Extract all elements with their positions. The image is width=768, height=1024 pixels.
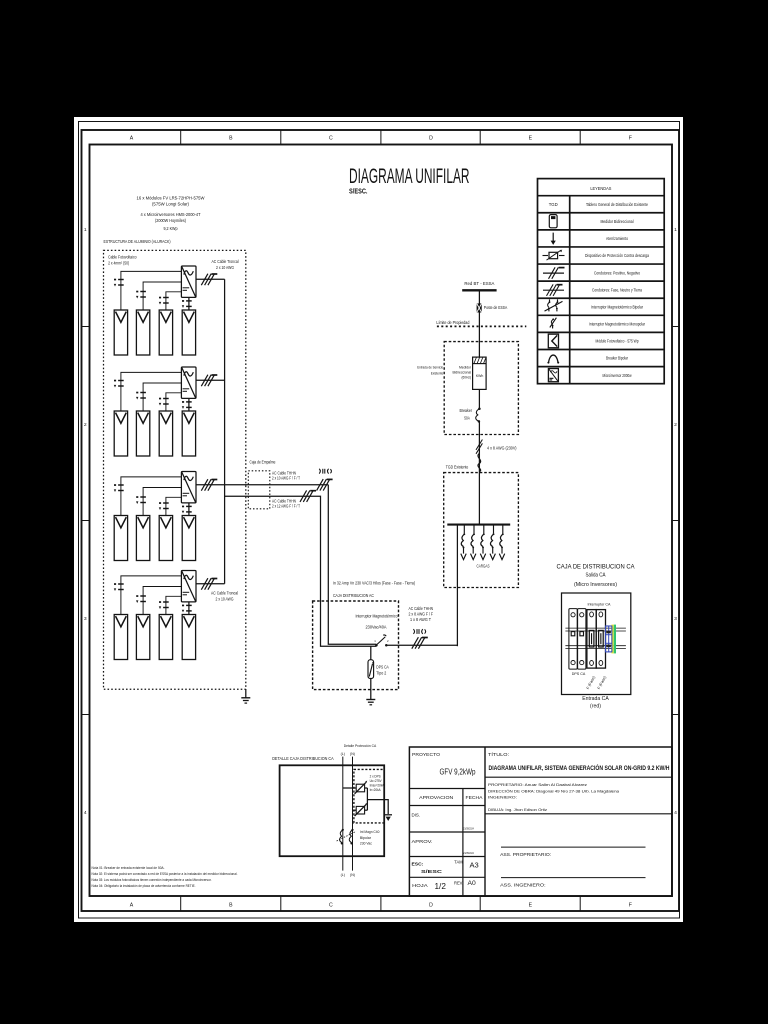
- svg-text:Bidireccional: Bidireccional: [453, 370, 472, 374]
- DC wire G1 panel 2 to inverter: [143, 282, 181, 310]
- label TGD Existente: [446, 465, 469, 470]
- svg-text:AC Cable Troncal: AC Cable Troncal: [211, 591, 238, 596]
- aluminium structure dashed enclosure: [104, 250, 246, 689]
- microinverter U2: [181, 367, 196, 398]
- distribution box dashed enclosure: [313, 601, 399, 690]
- MC4 connector pair G3-2: [136, 496, 146, 504]
- structure earthing wire: [245, 689, 247, 698]
- DC wire G4 panel 1 to inverter: [121, 576, 181, 615]
- svg-text:A3: A3: [470, 861, 479, 870]
- solar PV module G3-P1: [114, 516, 127, 561]
- title block frame: [409, 747, 672, 896]
- svg-text:Poste de ESSA: Poste de ESSA: [484, 305, 508, 310]
- solar PV module G1-P1: [114, 310, 127, 355]
- label ESTRUCTURA DE ALUMINIO (ALURACK): [104, 239, 171, 244]
- svg-text:21/05/2024: 21/05/2024: [463, 851, 474, 855]
- AC breaker module 1: [587, 610, 596, 669]
- bipolar breaker detail L: [340, 829, 344, 845]
- solar PV module G2-P3: [159, 411, 172, 456]
- svg-text:A0: A0: [468, 880, 476, 887]
- svg-text:Uc=275V: Uc=275V: [370, 779, 383, 783]
- label DPS CA Tipo 2: [376, 665, 389, 676]
- svg-text:D: D: [429, 903, 433, 909]
- label Red BT - ESSA: [464, 281, 494, 286]
- svg-text:TAM.: TAM.: [454, 859, 463, 864]
- svg-text:Cable Fotovoltaico: Cable Fotovoltaico: [108, 255, 137, 260]
- DC wire G4 panel 2 to inverter: [143, 587, 181, 615]
- drawing title text: [489, 763, 670, 772]
- microinverter U1: [181, 266, 196, 297]
- legend text row 2: [601, 219, 634, 224]
- label Interruptor CA: [588, 601, 611, 606]
- svg-text:4 x Microinversores HMS-2000-4: 4 x Microinversores HMS-2000-4T: [141, 212, 201, 217]
- svg-text:DIBUJA: Ing. Jhon Edison Orti: DIBUJA: Ing. Jhon Edison Ortiz: [488, 807, 547, 812]
- signature line proprietario: [501, 846, 646, 848]
- svg-text:ASS. INGENIERO:: ASS. INGENIERO:: [500, 882, 545, 887]
- AC trunk wire from U2 to bus: [196, 379, 225, 381]
- svg-text:Salida CA: Salida CA: [586, 573, 606, 579]
- svg-text:1 x 8 AWG T: 1 x 8 AWG T: [410, 617, 431, 622]
- svg-text:4: 4: [674, 810, 677, 816]
- conductor count marks on U4 output: [201, 578, 217, 590]
- svg-text:S/ESC: S/ESC: [421, 869, 443, 875]
- svg-text:INGENIERO:: INGENIERO:: [488, 794, 517, 799]
- svg-text:DIAGRAMA UNIFILAR, SISTEMA GEN: DIAGRAMA UNIFILAR, SISTEMA GENERACIÓN SO…: [489, 763, 670, 772]
- wire L phase detail: [342, 757, 344, 871]
- legend icon breaker bipolar: [547, 355, 559, 364]
- label AC Cable THHN output: [409, 606, 434, 634]
- svg-text:(N): (N): [350, 752, 355, 756]
- svg-text:Bipolar: Bipolar: [360, 836, 372, 840]
- svg-text:ESTRUCTURA DE ALUMINIO (ALURAC: ESTRUCTURA DE ALUMINIO (ALURACK): [104, 239, 171, 244]
- svg-text:2 x 10 AWG: 2 x 10 AWG: [216, 596, 234, 601]
- legend text row 8: [589, 322, 645, 327]
- svg-text:Nota 03: Los módulos fotovolta: Nota 03: Los módulos fotovoltaicos tiene…: [92, 878, 212, 882]
- svg-text:In 32 Amp Vn 230 VAC/3 Hilos: In 32 Amp Vn 230 VAC/3 Hilos (Fase - Fas…: [333, 581, 416, 586]
- DPS module 2: [578, 609, 586, 670]
- svg-text:DIS.: DIS.: [412, 813, 421, 818]
- MC4 connector pair G4-4: [182, 605, 192, 613]
- svg-text:F: F: [629, 903, 632, 909]
- legend icon monopolar thermal-magnetic switch: [550, 318, 557, 329]
- PV interconnection wire from TGD bus: [456, 525, 458, 647]
- conductor marks on lower circuit: [300, 490, 316, 502]
- label TITULO: [488, 751, 509, 758]
- svg-text:Medidor: Medidor: [459, 365, 472, 369]
- svg-text:Int Magn C40: Int Magn C40: [360, 830, 380, 834]
- label 4 x 8 AWG (230V): [487, 446, 517, 451]
- svg-text:A: A: [130, 903, 134, 909]
- DC wire G2 panel 2 to inverter: [143, 383, 181, 411]
- conductor marks service feeder: [476, 440, 482, 454]
- label AC Cable Troncal (group 1): [212, 259, 239, 270]
- bipolar breaker detail N: [349, 829, 353, 845]
- label AC Cable Troncal (group 4): [211, 591, 238, 602]
- wire group3 down to distribution box (upper circuit): [328, 485, 376, 645]
- svg-text:B: B: [229, 136, 233, 142]
- label 2 x DPS specs: [370, 775, 385, 792]
- label AC cable THHN 10AWG: [272, 470, 300, 480]
- utility bus bar Red BT: [462, 289, 496, 291]
- legend icon ground arrow: [551, 233, 556, 245]
- svg-text:230Vac/40A: 230Vac/40A: [366, 625, 387, 630]
- svg-text:TGD Existente: TGD Existente: [446, 465, 469, 470]
- svg-text:Nota 01: Breaker de entrada ex: Nota 01: Breaker de entrada existente lo…: [92, 866, 165, 870]
- svg-text:CARGAS: CARGAS: [477, 563, 490, 568]
- detail title CAJA DE DISTRIBUCION CA: [557, 563, 635, 588]
- legend table LEYENDAS frame: [538, 179, 665, 384]
- DPS ground symbol: [366, 700, 375, 705]
- label Detalle Proteccion CA: [344, 743, 377, 748]
- svg-text:(red): (red): [590, 704, 601, 710]
- legend text row 5: [594, 270, 640, 275]
- svg-text:(L): (L): [341, 873, 345, 877]
- AC trunk wire from U1 to bus: [196, 278, 225, 280]
- svg-text:4 x 8 AWG (230V): 4 x 8 AWG (230V): [487, 446, 517, 451]
- detail box outline: [280, 765, 385, 856]
- conductor marks on upper circuit corner: [317, 479, 333, 491]
- svg-text:3: 3: [674, 616, 677, 622]
- label APROVACION FECHA: [419, 795, 483, 800]
- svg-text:9,2 KWp: 9,2 KWp: [164, 226, 178, 231]
- DC wire G1 panel 1 to inverter: [121, 271, 181, 310]
- conductor count marks on U1 output: [201, 274, 217, 286]
- pole Poste de ESSA: [477, 303, 482, 312]
- svg-text:Dispositivo de Protección Cont: Dispositivo de Protección Contra descarg…: [585, 253, 649, 258]
- label AC cable THHN 12AWG: [272, 498, 300, 508]
- svg-text:2 x 10 AWG: 2 x 10 AWG: [216, 265, 234, 270]
- wire breaker to TGD bus: [478, 421, 480, 524]
- label Entrada de Servicio Existente: [417, 366, 443, 376]
- DIN rail upper: [565, 628, 626, 631]
- svg-text:Nota 02: El sistema podrá ser: Nota 02: El sistema podrá ser conectado …: [92, 872, 238, 876]
- DC wire G1 panel 3 to inverter: [166, 292, 182, 310]
- legend icon microinverter: [548, 369, 558, 382]
- svg-text:2 x 12 AWG F / F / T: 2 x 12 AWG F / F / T: [272, 504, 300, 509]
- label Int Magn C40: [360, 830, 380, 845]
- svg-text:Entrada CA: Entrada CA: [582, 696, 609, 702]
- DPS detail dashed box: [354, 769, 384, 823]
- svg-text:2 x DPS: 2 x DPS: [370, 775, 382, 779]
- svg-text:Breaker Bipolar: Breaker Bipolar: [606, 356, 628, 361]
- svg-text:Microinversor 2000w: Microinversor 2000w: [603, 373, 633, 378]
- solar PV module G4-P3: [159, 615, 172, 660]
- label Medidor Bidireccional: [453, 365, 472, 379]
- DC wire G1 panel 4 to inverter: [188, 297, 190, 310]
- MC4 connector pair G2-4: [182, 401, 192, 409]
- solar PV module G2-P2: [136, 411, 149, 456]
- solar PV module G4-P2: [136, 615, 149, 660]
- caja de empalme dashed box: [248, 471, 269, 509]
- svg-text:2: 2: [84, 422, 87, 428]
- grid reference ticks: [82, 130, 680, 911]
- microinverter U4: [181, 571, 196, 602]
- microinverter U3: [181, 472, 196, 503]
- label CAJA DISTRIBUCION AC: [333, 593, 375, 598]
- solar PV module G3-P4: [182, 516, 195, 561]
- svg-text:TÍTULO:: TÍTULO:: [488, 751, 509, 758]
- outer thin border: [79, 122, 680, 919]
- svg-text:B: B: [229, 903, 233, 909]
- solar PV module G2-P4: [182, 411, 195, 456]
- legend icon DPS: [543, 249, 565, 260]
- svg-text:1: 1: [674, 227, 677, 233]
- svg-text:C: C: [329, 136, 333, 142]
- MC4 connector pair G2-3: [159, 398, 169, 406]
- svg-text:C: C: [329, 903, 333, 909]
- svg-text:E: E: [529, 903, 533, 909]
- label Caja de Empalme: [250, 459, 276, 464]
- svg-text:21/05/2024: 21/05/2024: [463, 826, 474, 830]
- svg-text:Interruptor Magnetotérmico: Interruptor Magnetotérmico: [356, 614, 399, 619]
- bidirectional meter KWh: [473, 357, 487, 389]
- svg-text:DPS CA: DPS CA: [376, 665, 389, 670]
- svg-text:Condutores: Fase, Neutro y Tie: Condutores: Fase, Neutro y Tierra: [592, 287, 642, 292]
- svg-text:Nota 04: Obligatorio la instal: Nota 04: Obligatorio la instalación de p…: [92, 884, 196, 888]
- varistor DPS 2: [353, 803, 368, 816]
- label Limite de Propiedad: [436, 320, 469, 325]
- svg-text:(2000W Hoymiles): (2000W Hoymiles): [155, 218, 186, 223]
- legend icon conductors 3: [543, 284, 564, 296]
- svg-text:16 x Módulos FV LR5-72HPH-575W: 16 x Módulos FV LR5-72HPH-575W: [137, 195, 206, 200]
- grid reference letters and numbers: [84, 136, 677, 909]
- label Interruptor Magnetotermico: [356, 614, 399, 619]
- svg-text:Entrada de Servicio: Entrada de Servicio: [417, 366, 443, 370]
- DPS output tie wire: [367, 788, 388, 814]
- MC4 connector pair G4-1: [114, 583, 124, 591]
- wire N phase detail: [352, 757, 354, 871]
- DC wire G4 panel 4 to inverter: [188, 602, 190, 615]
- structure ground symbol: [241, 698, 250, 703]
- MC4 connector pair G3-3: [159, 502, 169, 510]
- DC wire G3 panel 3 to inverter: [166, 497, 182, 515]
- svg-text:APROV.: APROV.: [412, 839, 433, 844]
- svg-text:TGD: TGD: [549, 202, 559, 207]
- svg-text:CAJA DE DISTRIBUCION CA: CAJA DE DISTRIBUCION CA: [557, 563, 635, 570]
- legend icon meter: [549, 215, 557, 228]
- DC wire G2 panel 1 to inverter: [121, 372, 181, 411]
- svg-text:Medidor Bidireccional: Medidor Bidireccional: [601, 219, 634, 224]
- svg-text:A: A: [130, 136, 134, 142]
- svg-text:Breaker: Breaker: [460, 408, 473, 413]
- svg-text:LEYENDAS: LEYENDAS: [590, 186, 611, 192]
- svg-text:2 x 10 AWG F / F / T: 2 x 10 AWG F / F / T: [272, 476, 300, 481]
- svg-text:Caja de Empalme: Caja de Empalme: [250, 459, 276, 464]
- svg-text:E: E: [529, 136, 533, 142]
- terminal labels L N top: [341, 752, 355, 756]
- MC4 connector pair G4-2: [136, 595, 146, 603]
- label In 32 Amp Vn 230VAC: [333, 581, 416, 586]
- solar PV module G3-P3: [159, 516, 172, 561]
- row DIS: [412, 813, 474, 831]
- inner drawing border: [90, 145, 673, 897]
- rotated label F fase 1: [586, 675, 597, 690]
- legend text row 6: [592, 287, 642, 292]
- splice connector symbols upper: [319, 469, 331, 474]
- svg-text:DIAGRAMA UNIFILAR: DIAGRAMA UNIFILAR: [349, 165, 470, 188]
- svg-text:ESC:: ESC:: [412, 861, 424, 867]
- MC4 connector pair G1-2: [136, 291, 146, 299]
- svg-text:REV.: REV.: [454, 880, 463, 885]
- wire bus to junction box (lower circuit): [225, 496, 377, 646]
- terminal block coloured: [606, 625, 617, 654]
- svg-text:CAJA DISTRIBUCION AC: CAJA DISTRIBUCION AC: [333, 593, 375, 598]
- scale label S/ESC.: [349, 188, 368, 196]
- DPS module 1: [569, 609, 577, 670]
- solar PV module G1-P2: [136, 310, 149, 355]
- svg-text:Módulo Fotovoltaico - 575 Wp: Módulo Fotovoltaico - 575 Wp: [596, 339, 639, 344]
- solar PV module G1-P4: [182, 310, 195, 355]
- legend icon PV module: [548, 334, 558, 348]
- owner info lines: [488, 782, 620, 812]
- svg-text:DIRECCIÓN DE OBRA: Diagonal 49: DIRECCIÓN DE OBRA: Diagonal 49 Nro 27-38…: [488, 789, 620, 794]
- DIN rail lower: [565, 646, 626, 649]
- svg-text:APROVACION: APROVACION: [419, 795, 453, 800]
- AC trunk wire from U4 to bus: [196, 583, 225, 585]
- row APROV: [412, 839, 474, 855]
- svg-text:(Micro Inversores): (Micro Inversores): [574, 582, 617, 588]
- conductor count marks on U2 output: [201, 375, 217, 387]
- service entrance dashed box: [444, 342, 518, 435]
- label 230Vac/40A: [366, 625, 387, 630]
- label Breaker 50A: [460, 408, 473, 420]
- svg-text:Interruptor Magnetotérmico Bip: Interruptor Magnetotérmico Bipolar: [591, 304, 643, 309]
- legend text row 7: [591, 304, 643, 309]
- label CARGAS: [477, 563, 490, 568]
- DC wire G3 panel 1 to inverter: [121, 477, 181, 516]
- svg-text:(N): (N): [350, 873, 355, 877]
- svg-text:D: D: [429, 136, 433, 142]
- svg-text:HOJA: HOJA: [412, 883, 429, 888]
- DC wire G2 panel 3 to inverter: [166, 393, 182, 411]
- DC wire G3 panel 2 to inverter: [143, 488, 181, 516]
- svg-text:Condutores: Positivo, Negativo: Condutores: Positivo, Negativo: [594, 270, 640, 275]
- solar PV module G3-P2: [136, 516, 149, 561]
- legend icon TGD: [549, 202, 559, 207]
- svg-text:4: 4: [84, 810, 87, 816]
- conductor marks after breaker: [412, 637, 428, 649]
- svg-text:KWh: KWh: [476, 373, 484, 378]
- svg-text:1: 1: [84, 227, 87, 233]
- svg-text:230 Vac: 230 Vac: [360, 841, 372, 845]
- AC trunk bus wire: [224, 279, 226, 584]
- TGD dashed enclosure: [444, 473, 519, 588]
- svg-text:F: F: [629, 136, 632, 142]
- solar PV module G1-P3: [159, 310, 172, 355]
- svg-text:Interruptor CA: Interruptor CA: [588, 601, 611, 606]
- legend header: [590, 186, 611, 192]
- TGD load branch breakers: [461, 525, 505, 560]
- label Entrada CA: [582, 696, 609, 709]
- label Cable Fotovoltaico: [108, 255, 137, 266]
- svg-text:Red BT - ESSA: Red BT - ESSA: [464, 281, 494, 286]
- DPS earthing wire: [370, 679, 372, 700]
- project name GFV 9,2kWp: [440, 768, 476, 777]
- row ESC TAM: [412, 859, 479, 875]
- svg-text:GFV 9,2kWp: GFV 9,2kWp: [440, 768, 476, 777]
- solar PV module G4-P4: [182, 615, 195, 660]
- label ASS INGENIERO: [500, 882, 545, 887]
- svg-text:(60Hz): (60Hz): [462, 375, 472, 379]
- svg-text:Tipo 2: Tipo 2: [376, 670, 387, 675]
- svg-text:DETALLE CAJA DISTRIBUCION CA: DETALLE CAJA DISTRIBUCION CA: [272, 756, 334, 762]
- legend icon conductors 2: [543, 267, 565, 279]
- varistor DPS 1: [343, 781, 368, 794]
- wire breaker to TGD: [386, 644, 457, 646]
- solar PV module G4-P1: [114, 615, 127, 660]
- legend text row 10: [606, 356, 628, 361]
- flexible conduit symbol: [478, 454, 481, 472]
- svg-text:(L): (L): [341, 752, 345, 756]
- svg-text:1/2: 1/2: [435, 882, 447, 891]
- grid band frame: [82, 130, 680, 911]
- TGD bus bar: [447, 524, 510, 526]
- solar PV module G2-P1: [114, 411, 127, 456]
- signature line ingeniero: [501, 877, 646, 879]
- label PROYECTO: [412, 752, 440, 758]
- svg-text:Existente: Existente: [431, 372, 444, 376]
- svg-text:Límite de Propiedad: Límite de Propiedad: [436, 320, 469, 325]
- breaker tie dashed: [337, 831, 356, 841]
- svg-text:Imax=20kA: Imax=20kA: [370, 783, 385, 787]
- title DIAGRAMA UNIFILAR: [349, 165, 470, 188]
- legend text row 11: [603, 373, 633, 378]
- svg-text:3: 3: [84, 616, 87, 622]
- MC4 connector pair G1-3: [159, 297, 169, 305]
- MC4 connector pair G4-3: [159, 601, 169, 609]
- MC4 connector pair G3-4: [182, 506, 192, 514]
- legend text row 4: [585, 253, 649, 258]
- terminal labels L N bottom: [341, 873, 355, 877]
- breaker 50A existing: [476, 407, 481, 422]
- PV system summary text: [137, 195, 206, 231]
- row HOJA REV: [412, 880, 476, 891]
- breaker Q1 40A: [374, 635, 389, 647]
- svg-text:S/ESC.: S/ESC.: [349, 188, 368, 196]
- svg-text:PROYECTO: PROYECTO: [412, 752, 440, 758]
- DC wire G2 panel 4 to inverter: [188, 398, 190, 411]
- label DPS CA (detail): [572, 672, 586, 676]
- DC wire G3 panel 4 to inverter: [188, 503, 190, 516]
- svg-text:AC Cable Troncal: AC Cable Troncal: [212, 259, 239, 264]
- svg-text:AC Cable THHN: AC Cable THHN: [409, 606, 434, 611]
- label Poste de ESSA: [484, 305, 508, 310]
- service drop wire: [478, 291, 480, 357]
- installation notes: [92, 866, 238, 888]
- label DETALLE CAJA DISTRIBUCION CA: [272, 756, 334, 762]
- wire meter to breaker: [478, 389, 480, 408]
- distribution box detail outline: [562, 593, 631, 695]
- svg-text:Aterrizamiento: Aterrizamiento: [606, 236, 628, 241]
- svg-text:Detalle Protección CA: Detalle Protección CA: [344, 743, 377, 748]
- svg-text:PROPRIETARIO: Anuar Salim Al: PROPRIETARIO: Anuar Salim Al Daabal Alva…: [488, 782, 587, 787]
- svg-text:50A: 50A: [464, 416, 470, 421]
- rotated label F fase 2: [597, 675, 608, 690]
- svg-text:Interruptor Magnetotérmico Mon: Interruptor Magnetotérmico Monopolar: [589, 322, 645, 327]
- surge protector DPS CA Tipo 2: [368, 660, 374, 679]
- DC wire G4 panel 3 to inverter: [166, 596, 182, 614]
- MC4 connector pair G1-4: [182, 300, 192, 308]
- legend text row 9: [596, 339, 639, 344]
- MC4 connector pair G2-1: [114, 380, 124, 388]
- property limit dashed line: [437, 325, 526, 327]
- AC trunk wire from U3 to junction box: [196, 484, 328, 486]
- svg-text:2: 2: [674, 422, 677, 428]
- svg-text:ASS. PROPRIETARIO:: ASS. PROPRIETARIO:: [500, 852, 551, 857]
- svg-text:DPS CA: DPS CA: [572, 672, 586, 676]
- svg-text:In=20kA: In=20kA: [370, 788, 382, 792]
- svg-text:2 x 8 AWG F / F: 2 x 8 AWG F / F: [409, 611, 434, 616]
